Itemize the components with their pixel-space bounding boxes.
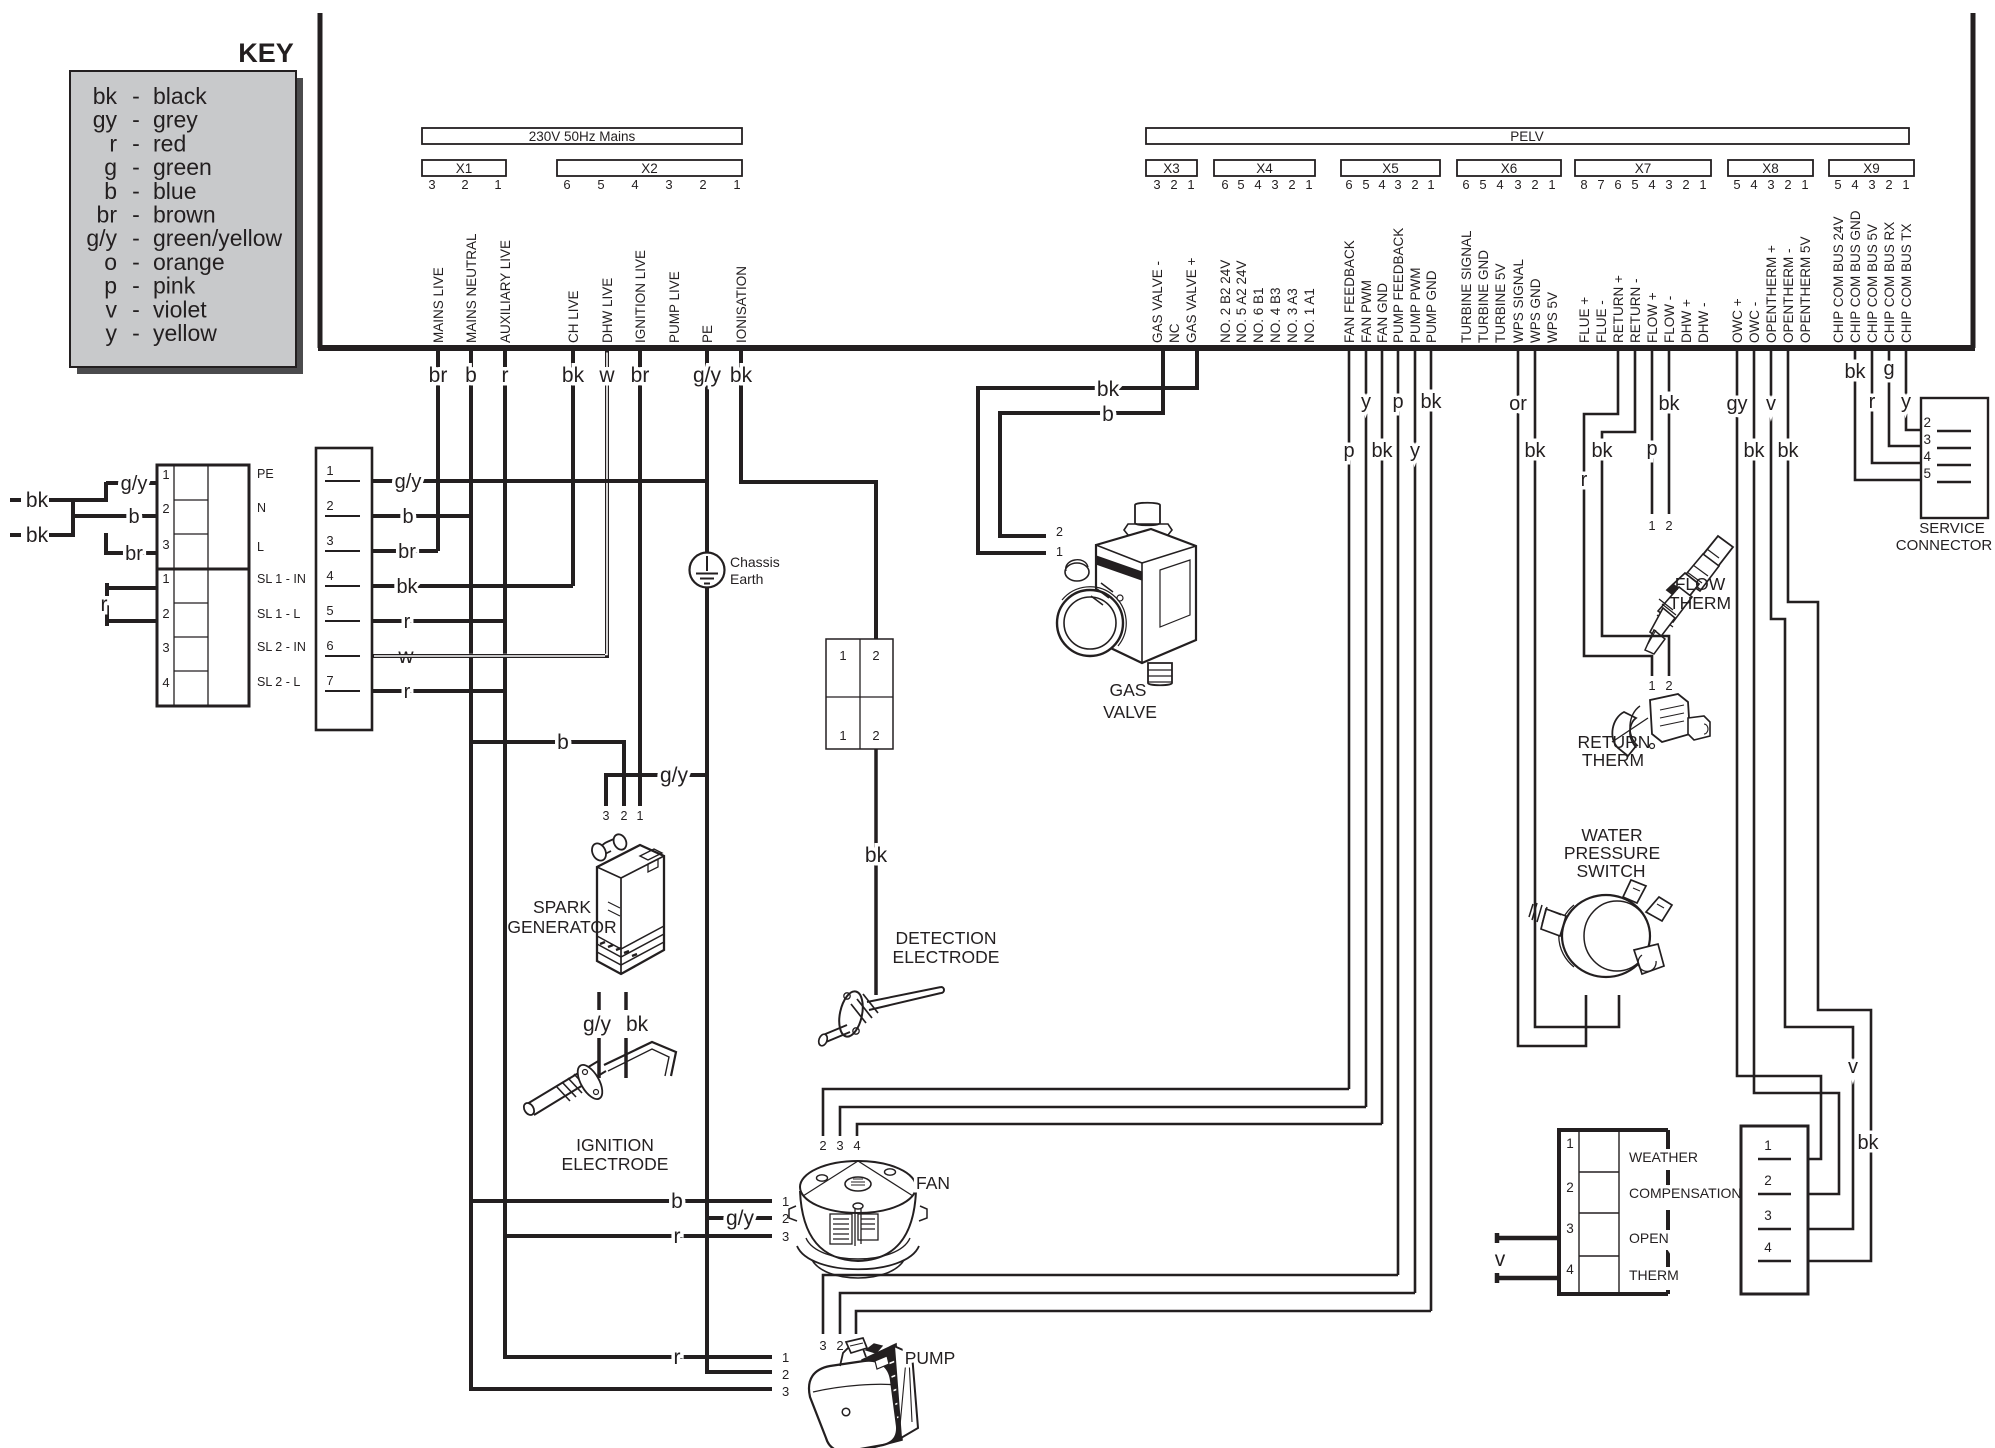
svg-text:5: 5 [1834,177,1841,192]
pin label FLUE - [1594,300,1609,343]
svg-text:4: 4 [1750,177,1757,192]
room connector 4-pin [1741,1126,1808,1294]
control board right edge [1971,13,1976,348]
svg-text:r: r [1869,391,1876,413]
pin label CHIP COM BUS RX [1882,222,1897,343]
ignition electrode [522,1042,676,1117]
wire p pump feedback [1392,351,1403,1275]
230V 50Hz Mains box [422,128,742,144]
svg-text:MAINS NEUTRAL: MAINS NEUTRAL [464,233,479,343]
svg-text:Chassis: Chassis [730,554,780,570]
svg-text:4: 4 [1764,1240,1772,1255]
svg-text:bk: bk [1524,440,1546,462]
svg-text:red: red [153,130,186,156]
connector X5 [1341,160,1440,192]
svg-text:-: - [132,130,140,156]
svg-text:2: 2 [782,1367,789,1382]
svg-text:6: 6 [326,638,333,653]
svg-text:CHIP COM BUS 24V: CHIP COM BUS 24V [1831,216,1846,343]
svg-text:p: p [1646,438,1657,460]
svg-text:GAS VALVE +: GAS VALVE + [1184,257,1199,343]
wire w DHW LIVE (white wire) [372,351,615,668]
svg-text:bk: bk [1591,440,1613,462]
svg-text:r: r [404,681,411,703]
svg-text:-: - [132,178,140,204]
svg-text:1: 1 [1801,177,1808,192]
svg-text:1: 1 [1187,177,1194,192]
pin label WPS 5V [1545,292,1560,343]
svg-text:b: b [671,1190,683,1213]
svg-text:FLOW +: FLOW + [1645,292,1660,343]
svg-text:g/y: g/y [693,364,722,387]
svg-text:3: 3 [819,1338,826,1353]
svg-text:THERM: THERM [1669,593,1731,613]
svg-text:DHW +: DHW + [1679,299,1694,343]
mains inlet wire bk lower [10,524,73,547]
interconnect box 2-pin [826,639,893,749]
svg-text:r: r [404,611,411,633]
pin label GAS VALVE - [1150,261,1165,343]
pin label NO. 1 A1 [1302,288,1317,343]
pin label PUMP LIVE [667,271,682,343]
svg-text:DHW LIVE: DHW LIVE [600,278,615,343]
svg-text:or: or [1509,393,1527,415]
svg-text:1: 1 [782,1350,789,1365]
svg-text:gy: gy [1726,393,1747,415]
svg-text:FAN FEEDBACK: FAN FEEDBACK [1342,240,1357,343]
svg-text:2: 2 [1056,525,1063,539]
svg-text:CHIP COM BUS TX: CHIP COM BUS TX [1899,223,1914,343]
terminal block labels [257,467,306,689]
svg-text:5: 5 [326,603,333,618]
svg-text:1: 1 [839,648,846,663]
svg-text:2: 2 [461,177,468,192]
pin label TURBINE 5V [1493,263,1508,343]
svg-text:2: 2 [1784,177,1791,192]
svg-text:GAS: GAS [1110,680,1147,700]
svg-text:br: br [125,543,143,565]
svg-text:green: green [153,154,212,180]
pin label FLUE + [1577,297,1592,343]
svg-text:bk: bk [865,844,888,867]
pin label FLOW + [1645,292,1660,343]
svg-text:2: 2 [782,1211,789,1226]
svg-text:Earth: Earth [730,571,763,587]
wire g chip com bus rx [1883,351,1921,446]
svg-text:v: v [1495,1248,1506,1271]
svg-text:SPARK: SPARK [533,897,591,917]
wire g/y to spark generator pin3 [606,764,707,806]
svg-text:violet: violet [153,296,207,322]
svg-text:-: - [132,225,140,251]
svg-text:X6: X6 [1501,161,1518,176]
svg-text:b: b [465,364,477,387]
svg-text:bk: bk [93,83,118,109]
svg-text:3: 3 [162,537,169,552]
svg-text:2: 2 [872,728,879,743]
svg-text:2: 2 [1764,1173,1772,1188]
svg-text:gy: gy [93,107,118,133]
key legend box [70,71,303,374]
wire b MAINS NEUTRAL [465,351,772,1389]
wire g/y chassis earth down to fan and pump [707,588,772,1372]
pin label PE [700,325,715,343]
svg-text:3: 3 [1767,177,1774,192]
wire p fan feedback [1343,351,1354,1089]
svg-text:5: 5 [1362,177,1369,192]
svg-text:MAINS LIVE: MAINS LIVE [431,267,446,343]
mains inlet junction [73,482,106,555]
wire b fan pin1 [471,1190,772,1213]
svg-text:bk: bk [1777,440,1799,462]
pin label TURBINE SIGNAL [1459,230,1474,343]
svg-text:orange: orange [153,249,225,275]
pin label MAINS LIVE [431,267,446,343]
pin label FAN PWM [1359,280,1374,343]
svg-text:3: 3 [836,1138,843,1153]
pump [809,1338,918,1448]
svg-text:6: 6 [1221,177,1228,192]
svg-text:y: y [1410,440,1420,462]
mains inlet wire bk upper [10,489,106,512]
pin label WPS GND [1528,278,1543,343]
svg-text:PE: PE [257,467,274,481]
wire b to terminal N [73,506,157,528]
svg-text:X9: X9 [1863,161,1880,176]
wire bk connector pin4 [372,576,573,598]
svg-text:FLOW -: FLOW - [1662,296,1677,343]
gas valve pin numbers [1056,525,1063,559]
svg-text:p: p [104,273,117,299]
svg-text:green/yellow: green/yellow [153,225,283,251]
pin label DHW + [1679,299,1694,343]
wire bk WPS gnd [1524,351,1619,1027]
svg-text:3: 3 [1665,177,1672,192]
svg-text:PUMP PWM: PUMP PWM [1408,267,1423,343]
svg-text:6: 6 [1345,177,1352,192]
svg-text:b: b [557,731,569,754]
svg-text:brown: brown [153,202,216,228]
wire y fan pwm [1361,351,1371,1107]
svg-text:GAS VALVE -: GAS VALVE - [1150,261,1165,343]
svg-text:1: 1 [162,467,169,482]
svg-text:FLOW: FLOW [1675,574,1726,594]
svg-text:-: - [132,273,140,299]
svg-text:1: 1 [782,1194,789,1209]
svg-text:2: 2 [699,177,706,192]
svg-text:3: 3 [428,177,435,192]
pin label NO. 3 A3 [1285,288,1300,343]
svg-text:2: 2 [819,1138,826,1153]
svg-text:THERM: THERM [1629,1267,1679,1283]
svg-text:br: br [97,202,118,228]
svg-text:r: r [109,130,117,156]
svg-text:3: 3 [603,809,610,823]
service connector [1921,398,1988,518]
svg-text:PRESSURE: PRESSURE [1564,843,1660,863]
pin label DHW LIVE [600,278,615,343]
svg-text:WEATHER: WEATHER [1629,1149,1698,1165]
main bus line [318,345,1975,351]
gas valve label [1103,680,1157,722]
svg-text:1: 1 [733,177,740,192]
svg-text:-: - [132,107,140,133]
water pressure switch [1529,880,1672,977]
svg-text:N: N [257,501,266,515]
pin label DHW - [1696,303,1711,344]
pin label CH LIVE [566,290,581,343]
svg-text:bk: bk [1097,378,1120,401]
svg-text:2: 2 [1531,177,1538,192]
svg-text:3: 3 [782,1384,789,1399]
wire b gas valve - [1000,351,1163,536]
svg-text:3: 3 [162,640,169,655]
wire g/y to terminal PE [106,473,157,495]
svg-text:L: L [257,540,264,554]
wire bk CH LIVE [562,351,585,586]
svg-text:FLUE +: FLUE + [1577,297,1592,343]
svg-text:bk: bk [26,524,49,547]
svg-text:r: r [502,364,509,387]
connector X4 [1214,160,1315,192]
svg-text:2: 2 [162,501,169,516]
svg-text:bk: bk [562,364,585,387]
svg-text:6: 6 [563,177,570,192]
pump label [905,1348,956,1368]
svg-text:p: p [1343,440,1354,462]
svg-text:3: 3 [1923,432,1931,447]
connector X7 [1575,160,1711,192]
pump pin numbers [782,1350,789,1399]
svg-text:4: 4 [1496,177,1503,192]
svg-text:X4: X4 [1256,161,1273,176]
svg-text:2: 2 [1411,177,1418,192]
flow therm [1645,536,1733,654]
svg-text:y: y [1361,391,1371,413]
wire gy OWC+ [1726,351,1821,1159]
svg-text:g/y: g/y [660,764,689,787]
detection electrode label [893,928,1000,967]
svg-text:FAN PWM: FAN PWM [1359,280,1374,343]
svg-text:NO. 4 B3: NO. 4 B3 [1268,287,1283,343]
pin label IGNITION LIVE [633,250,648,343]
svg-text:2: 2 [872,648,879,663]
pin label PUMP FEEDBACK [1391,228,1406,343]
wire bk fan gnd [1371,351,1393,1124]
pin label NO. 2 B2 24V [1218,260,1233,343]
svg-text:KEY: KEY [238,38,294,68]
wire r pump pin1 [505,1346,772,1369]
svg-text:y: y [1901,391,1911,413]
svg-text:w: w [598,364,615,387]
svg-text:v: v [106,296,118,322]
svg-text:NO. 1 A1: NO. 1 A1 [1302,288,1317,343]
svg-text:VALVE: VALVE [1103,702,1157,722]
wire r connector pin7 [372,681,505,703]
pin label MAINS NEUTRAL [464,233,479,343]
svg-text:1: 1 [162,571,169,586]
pin label OPENTHERM - [1781,249,1796,344]
svg-text:2: 2 [1566,1180,1574,1195]
svg-text:1: 1 [494,177,501,192]
pin label OWC - [1747,302,1762,343]
pin label PUMP GND [1424,270,1439,343]
svg-text:CHIP COM BUS GND: CHIP COM BUS GND [1848,210,1863,343]
svg-text:bk: bk [730,364,753,387]
spark generator pin numbers [603,809,644,823]
svg-text:OPENTHERM 5V: OPENTHERM 5V [1798,236,1813,343]
svg-text:2: 2 [1665,678,1672,693]
svg-text:-: - [132,296,140,322]
wire bk OWC- [1743,351,1839,1194]
svg-text:NO. 6 B1: NO. 6 B1 [1251,287,1266,343]
mains terminal block [157,465,249,706]
svg-text:3: 3 [1271,177,1278,192]
svg-text:NC: NC [1167,323,1182,343]
svg-text:3: 3 [1153,177,1160,192]
svg-text:OPENTHERM -: OPENTHERM - [1781,249,1796,344]
key legend entries [86,83,282,346]
spark generator label [507,897,616,937]
pin label FAN FEEDBACK [1342,240,1357,343]
wire bk chip com bus gnd [1844,351,1921,480]
svg-text:r: r [674,1346,681,1369]
pin label RETURN - [1628,279,1643,344]
wire r connector pin5 [372,611,505,633]
flow therm pin numbers [1648,518,1672,533]
KEY title [238,38,294,68]
svg-text:ELECTRODE: ELECTRODE [893,947,1000,967]
wire r link SL1 [101,583,158,626]
svg-text:4: 4 [1851,177,1858,192]
svg-text:PELV: PELV [1510,129,1544,144]
svg-text:X7: X7 [1635,161,1652,176]
svg-text:bk: bk [26,489,49,512]
connector X2 [557,160,742,192]
svg-text:DHW -: DHW - [1696,303,1711,344]
svg-text:b: b [402,506,413,528]
svg-text:IGNITION: IGNITION [576,1135,654,1155]
wire b pump pin3 [471,1387,772,1391]
gas valve [1057,503,1196,686]
svg-text:RETURN +: RETURN + [1611,275,1626,343]
svg-text:3: 3 [1514,177,1521,192]
pin label WPS SIGNAL [1511,258,1526,343]
svg-text:bk: bk [1371,440,1393,462]
return therm pin numbers [1648,678,1672,693]
svg-text:3: 3 [1394,177,1401,192]
svg-text:5: 5 [1923,466,1931,481]
pin label NO. 6 B1 [1251,287,1266,343]
svg-text:3: 3 [665,177,672,192]
spark generator leads g/y bk [583,992,649,1078]
svg-text:2: 2 [162,606,169,621]
svg-text:-: - [132,154,140,180]
svg-text:X2: X2 [641,161,658,176]
wire y chip com bus tx [1901,351,1921,430]
svg-text:RETURN: RETURN [1578,732,1651,752]
svg-text:GENERATOR: GENERATOR [507,917,616,937]
svg-text:3: 3 [1566,1221,1574,1236]
svg-text:br: br [429,364,448,387]
svg-text:SL 2 - IN: SL 2 - IN [257,640,306,654]
svg-text:6: 6 [1614,177,1621,192]
pin label PUMP PWM [1408,267,1423,343]
ignition electrode label [562,1135,669,1174]
svg-text:1: 1 [1548,177,1555,192]
svg-text:2: 2 [326,498,333,513]
fan pin numbers [782,1194,789,1244]
svg-text:g/y: g/y [86,225,117,251]
svg-text:2: 2 [1923,415,1931,430]
svg-text:CHIP COM BUS RX: CHIP COM BUS RX [1882,222,1897,343]
connector X9 [1829,160,1914,192]
svg-text:bk: bk [1743,440,1765,462]
svg-text:bk: bk [396,576,418,598]
svg-text:pink: pink [153,273,196,299]
svg-text:r: r [101,593,108,616]
PELV box [1146,128,1909,144]
svg-text:yellow: yellow [153,320,217,346]
svg-text:1: 1 [1305,177,1312,192]
svg-text:3: 3 [1764,1208,1772,1223]
svg-text:230V 50Hz Mains: 230V 50Hz Mains [529,129,636,144]
svg-text:5: 5 [597,177,604,192]
svg-text:NO. 2 B2 24V: NO. 2 B2 24V [1218,260,1233,343]
service connector label [1896,520,1993,554]
svg-text:5: 5 [1237,177,1244,192]
svg-text:CONNECTOR: CONNECTOR [1896,537,1993,554]
svg-text:SERVICE: SERVICE [1919,520,1985,537]
svg-text:1: 1 [1699,177,1706,192]
svg-text:WATER: WATER [1581,825,1642,845]
svg-text:X8: X8 [1762,161,1779,176]
svg-text:NO. 5 A2 24V: NO. 5 A2 24V [1234,260,1249,343]
pin label AUXILIARY LIVE [498,240,513,343]
svg-text:CHIP COM BUS 5V: CHIP COM BUS 5V [1865,224,1880,343]
svg-text:1: 1 [839,728,846,743]
svg-text:FAN: FAN [916,1173,950,1193]
svg-text:SWITCH: SWITCH [1576,861,1645,881]
svg-text:WPS 5V: WPS 5V [1545,292,1560,343]
svg-text:2: 2 [1288,177,1295,192]
svg-text:1: 1 [1764,1138,1772,1153]
svg-text:7: 7 [326,673,333,688]
svg-text:bk: bk [1420,391,1442,413]
svg-text:bk: bk [626,1013,649,1036]
wire br to terminal L [106,543,157,565]
wire v link open therm [1495,1233,1559,1283]
wire g/y pump pin2 [707,1370,772,1374]
svg-text:bk: bk [1844,361,1866,383]
svg-text:DETECTION: DETECTION [895,928,996,948]
svg-text:IONISATION: IONISATION [734,266,749,343]
svg-text:1: 1 [1427,177,1434,192]
svg-text:5: 5 [1479,177,1486,192]
svg-text:v: v [1766,393,1776,415]
7-pin connector [316,448,372,730]
connector X6 [1457,160,1561,192]
svg-text:2: 2 [1170,177,1177,192]
svg-text:NO. 3 A3: NO. 3 A3 [1285,288,1300,343]
wire g/y connector pin1 to earth line [372,471,707,493]
svg-text:grey: grey [153,107,198,133]
svg-text:b: b [1102,403,1114,426]
svg-text:1: 1 [1648,678,1655,693]
wire v OPENTHERM+ [1766,351,1858,1229]
svg-text:g: g [104,154,117,180]
pin label OWC + [1730,298,1745,343]
